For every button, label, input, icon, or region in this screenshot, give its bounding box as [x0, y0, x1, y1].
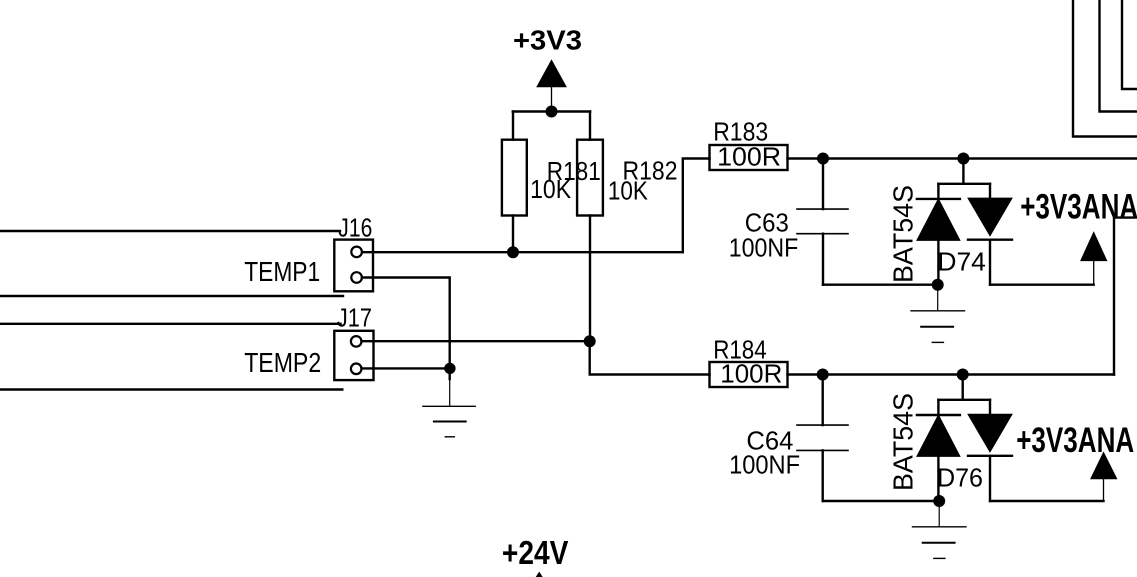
wire: main net R183 output to right edge [788, 157, 1137, 159]
node: junction C63/D74 anode/ground [932, 279, 944, 291]
svg-text:BAT54S: BAT54S [888, 393, 919, 491]
svg-text:100NF: 100NF [729, 232, 799, 262]
svg-text:TEMP1: TEMP1 [244, 256, 320, 287]
svg-text:BAT54S: BAT54S [888, 185, 919, 283]
wire: left off-sheet line 1 (above TEMP1) [0, 230, 340, 232]
capacitor C63 [797, 159, 848, 285]
svg-text:J17: J17 [337, 302, 372, 332]
svg-text:+3V3: +3V3 [513, 25, 582, 56]
wire: top-right nested corner outer [1073, 0, 1137, 137]
resistor R183 [710, 145, 788, 170]
svg-text:D76: D76 [937, 462, 983, 492]
wire: top-right nested corner middle [1100, 0, 1137, 112]
node: junction D76 top [957, 369, 969, 381]
ground symbol (under D76) [913, 501, 967, 558]
svg-text:10K: 10K [530, 174, 572, 204]
diode D76 (BAT54S dual) [917, 375, 1012, 502]
node: junction connector ground [444, 363, 455, 374]
wire: C64 bottom to ground junction [823, 500, 940, 502]
svg-text:100R: 100R [717, 142, 781, 172]
wire: R184 output to riser at right [788, 373, 1115, 375]
ground symbol (connectors) [423, 368, 475, 436]
node: junction +3V3 rail [546, 106, 558, 118]
wire: J17 pin2 to ground junction [362, 367, 450, 369]
power symbol +3V3 arrow [537, 61, 566, 112]
wire: TEMP1 riser up to R183 [683, 159, 710, 253]
svg-text:10K: 10K [608, 176, 649, 206]
wire: +3V3 rail between R181 and R182 tops [513, 110, 590, 112]
resistor R181 [502, 112, 527, 253]
svg-text:J16: J16 [338, 212, 372, 242]
resistor R184 [710, 362, 788, 387]
svg-text:+3V3ANA: +3V3ANA [1016, 421, 1134, 460]
svg-text:+24V: +24V [502, 534, 569, 571]
node: junction D74 top [957, 153, 969, 165]
node: junction C64/D76 anode/ground [933, 495, 945, 507]
power symbol +3V3ANA arrow (top) [1081, 233, 1107, 285]
wire: top-right nested corner inner [1122, 0, 1137, 89]
connector J17 [334, 331, 373, 380]
svg-text:100R: 100R [720, 359, 782, 389]
node: junction R181 bottom on TEMP1 net [507, 246, 519, 258]
svg-text:D74: D74 [937, 247, 986, 277]
wire: TEMP1 net from J16 pin1 to riser [362, 251, 683, 253]
wire: D76 cathode to +3V3ANA stub [990, 500, 1104, 502]
ground symbol (under D74) [911, 285, 965, 343]
connector J16 [334, 240, 373, 292]
diode D74 (BAT54S dual) [917, 159, 1012, 285]
wire: D74 cathode to +3V3ANA stub [990, 284, 1094, 286]
wire: left off-sheet line 2 (below TEMP1) [0, 295, 343, 297]
svg-text:TEMP2: TEMP2 [244, 347, 321, 378]
power symbol +3V3ANA arrow (bottom) [1091, 453, 1117, 501]
wire: C63 bottom to ground junction [823, 284, 938, 286]
capacitor C64 [797, 375, 848, 502]
wire: right riser to off-sheet at right edge [1114, 218, 1137, 375]
node: junction C63 top [817, 153, 829, 165]
svg-text:+3V3ANA: +3V3ANA [1020, 187, 1137, 226]
wire: left off-sheet line 4 (below TEMP2) [0, 388, 342, 390]
wire: TEMP2 drop to R184 [590, 341, 710, 374]
node: junction C64 top [817, 369, 829, 381]
power symbol +24V arrow (clipped at bottom) [536, 573, 542, 577]
wire: TEMP2 net J17 pin1 to R182 junction [362, 340, 590, 342]
svg-text:100NF: 100NF [729, 450, 800, 480]
resistor R182 [577, 112, 603, 342]
wire: J16 pin2 to ground [362, 278, 450, 369]
wire: left off-sheet line 3 (above TEMP2) [0, 323, 341, 325]
node: junction TEMP2 / R182 bottom [584, 335, 596, 347]
